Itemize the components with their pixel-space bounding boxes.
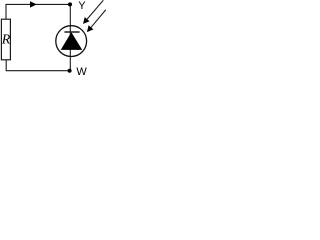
node W junction dot (68, 69, 72, 73)
wire top-left (resistor top to corner to node Y) (6, 4, 70, 19)
light arrow 2 head (88, 26, 93, 32)
wire right vertical (node Y through photodiode to node W) (69, 4, 71, 70)
photodiode D1 circle (56, 26, 87, 57)
current-direction arrow on top wire (30, 1, 37, 7)
node Y junction dot (68, 2, 72, 6)
photodiode anode triangle (61, 32, 82, 50)
light arrow 2 shaft (89, 10, 106, 30)
svg-text:Y: Y (78, 0, 86, 12)
svg-text:R: R (1, 32, 11, 47)
photodiode cathode bar (64, 31, 79, 33)
light arrow 1 shaft (85, 0, 103, 21)
resistor R (1, 19, 10, 60)
svg-text:W: W (76, 66, 87, 78)
wire bottom-left (resistor bottom to corner to node W) (6, 60, 69, 71)
light arrow 1 head (84, 18, 89, 23)
